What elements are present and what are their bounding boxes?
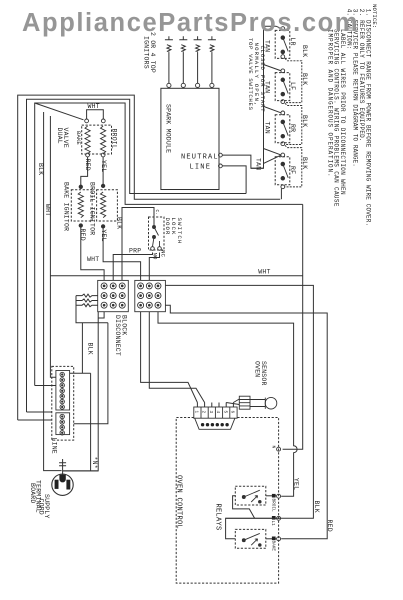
svg-text:AppliancePartsPros.com: AppliancePartsPros.com — [22, 9, 359, 37]
svg-text:CLOSED FOR START: CLOSED FOR START — [259, 46, 266, 113]
svg-text:YEL: YEL — [293, 478, 300, 490]
svg-text:OVEN CONTROL: OVEN CONTROL — [175, 475, 183, 529]
svg-text:WHT: WHT — [87, 256, 99, 263]
svg-text:C.: C. — [154, 210, 159, 215]
svg-text:SWITCH: SWITCH — [176, 218, 183, 245]
svg-text:BLK: BLK — [116, 217, 123, 229]
svg-text:BROIL: BROIL — [111, 129, 118, 150]
svg-text:LOCK: LOCK — [170, 218, 177, 236]
svg-text:BROIL: BROIL — [271, 499, 276, 513]
svg-text:DUAL: DUAL — [56, 128, 63, 144]
svg-text:VALVE: VALVE — [62, 128, 69, 149]
svg-text:BLK: BLK — [86, 343, 93, 355]
svg-text:BLK: BLK — [301, 115, 308, 127]
svg-text:DOOR: DOOR — [164, 218, 171, 236]
svg-text:BAKE: BAKE — [75, 131, 82, 145]
svg-text:DISCONNECT: DISCONNECT — [114, 315, 121, 356]
svg-text:N: N — [271, 446, 276, 449]
svg-text:BLOCK: BLOCK — [120, 315, 127, 336]
svg-text:BLK: BLK — [37, 163, 44, 175]
svg-text:2: 2 — [201, 411, 206, 414]
svg-text:6: 6 — [230, 411, 235, 414]
svg-text:BLK: BLK — [301, 157, 308, 169]
svg-text:BLK: BLK — [301, 45, 308, 57]
svg-text:PRP: PRP — [129, 248, 141, 255]
svg-text:SENSOR: SENSOR — [260, 361, 267, 386]
svg-text:BLK: BLK — [301, 73, 308, 85]
svg-text:L1: L1 — [270, 521, 275, 527]
svg-text:4: 4 — [215, 411, 220, 414]
svg-text:LINE: LINE — [50, 438, 57, 454]
svg-text:YEL: YEL — [100, 160, 107, 172]
svg-text:3: 3 — [208, 411, 213, 414]
svg-text:CORD: CORD — [38, 499, 45, 515]
svg-text:TAN: TAN — [264, 81, 271, 93]
svg-text:RELAYS: RELAYS — [214, 504, 222, 531]
svg-text:1: 1 — [194, 411, 199, 414]
svg-text:WHT: WHT — [44, 204, 51, 216]
svg-text:WHT: WHT — [258, 268, 270, 275]
svg-text:LINE: LINE — [190, 164, 212, 172]
svg-text:BAKE IGNITOR: BAKE IGNITOR — [63, 182, 70, 231]
svg-text:IMPROPER AND DANGEROUS OPER: IMPROPER AND DANGEROUS OPERATION. — [326, 29, 333, 178]
svg-text:TAN: TAN — [255, 158, 262, 170]
svg-text:TAN: TAN — [264, 40, 271, 52]
svg-text:OVEN: OVEN — [254, 361, 261, 377]
svg-text:YEL: YEL — [100, 229, 107, 241]
svg-text:BAKE: BAKE — [271, 541, 276, 552]
svg-text:TAN: TAN — [264, 122, 271, 134]
svg-text:NEUTRAL: NEUTRAL — [181, 153, 219, 161]
svg-text:BLK: BLK — [313, 501, 320, 513]
svg-text:SPARK MODULE: SPARK MODULE — [165, 104, 172, 153]
svg-text:RED: RED — [84, 159, 91, 171]
svg-text:5: 5 — [222, 411, 227, 414]
svg-text:RR: RR — [289, 124, 296, 132]
svg-text:LR: LR — [289, 38, 296, 46]
svg-text:BOARD: BOARD — [29, 483, 36, 504]
svg-text:BROIL IGNITOR: BROIL IGNITOR — [89, 182, 96, 235]
svg-text:RED: RED — [79, 229, 86, 241]
svg-text:*N*: *N* — [91, 457, 98, 469]
svg-text:IGNITORS: IGNITORS — [142, 36, 149, 69]
svg-text:RED: RED — [326, 520, 333, 532]
svg-text:NORMALLY OPEN,: NORMALLY OPEN, — [253, 43, 260, 107]
svg-text:LF: LF — [289, 82, 296, 90]
svg-text:NO: NO — [152, 253, 159, 260]
svg-text:NC: NC — [160, 250, 167, 257]
svg-text:WHT: WHT — [88, 103, 100, 110]
svg-text:RF: RF — [289, 166, 296, 174]
